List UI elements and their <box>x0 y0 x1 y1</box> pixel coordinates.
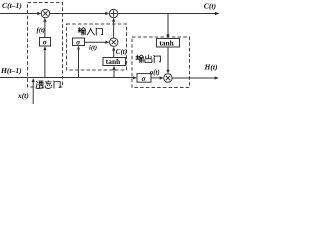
wire x(t) input up to H line <box>32 81 34 104</box>
sigma box output <box>137 74 151 83</box>
wire C(t-1) top cell line left segment <box>0 13 39 15</box>
label 遗忘门 (forget gate) <box>34 80 60 89</box>
sigma box forget <box>40 38 51 47</box>
svg-text:tanh: tanh <box>106 57 120 66</box>
node add <box>109 9 117 17</box>
wire H line up into sigma forget <box>44 49 46 77</box>
wire top cell line middle segment <box>50 13 107 15</box>
glyph 出 <box>145 55 152 62</box>
svg-text:f(t): f(t) <box>37 27 46 34</box>
glyph 门 <box>154 55 161 62</box>
label 输入门 (input gate) <box>78 28 102 35</box>
node multiply forget <box>41 9 49 17</box>
svg-text:i(t): i(t) <box>89 44 97 51</box>
svg-text:C(t): C(t) <box>116 48 127 56</box>
svg-text:C(t): C(t) <box>204 1 217 10</box>
glyph 入 <box>87 28 94 35</box>
wire sigma input to multiply input <box>85 41 107 43</box>
svg-text:H(t–1): H(t–1) <box>0 66 22 75</box>
glyph 忘 <box>45 81 52 89</box>
wire top cell line right segment <box>118 13 216 15</box>
wire H(t) out <box>172 77 215 79</box>
sigma box input <box>73 38 85 46</box>
wire multiply input up to add <box>113 21 115 38</box>
svg-text:o(t): o(t) <box>150 69 160 76</box>
wire branch from cell line down to tanh output <box>167 14 169 36</box>
node multiply output <box>164 74 172 82</box>
wire tanh candidate up to multiply input <box>113 50 115 58</box>
wire H line up into tanh candidate <box>113 69 115 78</box>
wire H line up into sigma input <box>78 49 80 78</box>
wire sigma forget up to multiply <box>44 21 46 38</box>
wire tanh output down to multiply output <box>167 47 169 71</box>
glyph 门 <box>54 81 61 88</box>
tanh box output <box>157 39 180 48</box>
node multiply input <box>110 38 118 46</box>
wire sigma output to multiply output <box>151 77 161 79</box>
wire H concat line <box>0 77 134 79</box>
svg-text:H(t): H(t) <box>204 63 219 72</box>
glyph 门 <box>96 28 103 35</box>
svg-text:x(t): x(t) <box>17 91 29 100</box>
svg-text:C(t–1): C(t–1) <box>2 1 22 10</box>
forget gate dashed box <box>28 3 63 88</box>
glyph 输 <box>78 28 85 35</box>
output gate dashed box <box>132 37 190 88</box>
glyph 输 <box>136 55 143 62</box>
input gate dashed box <box>67 24 127 70</box>
glyph 遗 <box>36 81 44 88</box>
label 输出门 (output gate) <box>136 55 160 62</box>
svg-text:tanh: tanh <box>159 39 173 48</box>
tanh box candidate <box>103 58 126 66</box>
